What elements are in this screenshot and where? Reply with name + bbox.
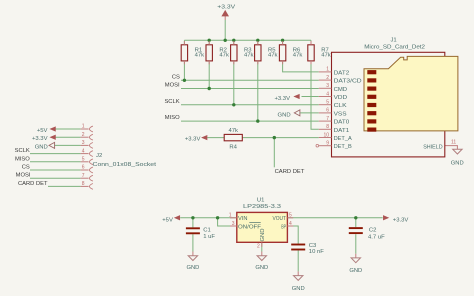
svg-text:47k: 47k — [195, 53, 205, 59]
svg-text:2: 2 — [257, 244, 260, 250]
svg-text:GND: GND — [35, 144, 48, 150]
svg-text:GND: GND — [451, 160, 464, 166]
svg-text:CARD DET: CARD DET — [275, 169, 305, 175]
svg-text:GND: GND — [255, 265, 268, 271]
svg-text:CLK: CLK — [334, 103, 347, 109]
svg-text:3: 3 — [82, 140, 85, 146]
svg-text:CMD: CMD — [334, 87, 348, 93]
svg-text:7: 7 — [82, 173, 85, 179]
svg-text:4: 4 — [82, 148, 85, 154]
svg-text:C3: C3 — [309, 243, 317, 249]
svg-text:+3.3V: +3.3V — [185, 136, 201, 142]
svg-text:CS: CS — [172, 74, 180, 80]
svg-text:47k: 47k — [228, 128, 238, 134]
svg-text:MOSI: MOSI — [165, 83, 180, 89]
svg-text:GND: GND — [349, 268, 362, 274]
svg-text:10 nF: 10 nF — [309, 249, 324, 255]
svg-text:2: 2 — [82, 132, 85, 138]
svg-text:DAT0: DAT0 — [334, 120, 350, 126]
svg-text:BP: BP — [281, 224, 286, 230]
svg-text:GND: GND — [260, 228, 266, 241]
svg-text:10: 10 — [323, 132, 329, 138]
svg-text:47k: 47k — [244, 53, 254, 59]
svg-text:J2: J2 — [96, 153, 102, 159]
svg-text:MISO: MISO — [15, 156, 30, 162]
svg-text:1: 1 — [326, 67, 329, 73]
svg-text:3: 3 — [326, 83, 329, 89]
svg-text:2: 2 — [326, 75, 329, 81]
svg-text:+3.3V: +3.3V — [32, 136, 48, 142]
svg-text:VIN: VIN — [238, 216, 248, 222]
svg-text:GND: GND — [186, 265, 199, 271]
svg-text:Conn_01x08_Socket: Conn_01x08_Socket — [93, 162, 157, 168]
svg-text:9: 9 — [326, 141, 329, 147]
svg-text:4: 4 — [289, 221, 292, 227]
svg-text:GND: GND — [292, 286, 305, 292]
svg-text:4.7 uF: 4.7 uF — [368, 234, 385, 240]
svg-text:VDD: VDD — [334, 95, 348, 101]
svg-text:8: 8 — [326, 124, 329, 130]
svg-text:C2: C2 — [369, 227, 377, 233]
svg-text:Micro_SD_Card_Det2: Micro_SD_Card_Det2 — [364, 45, 425, 51]
svg-text:4: 4 — [326, 91, 329, 97]
svg-text:CS: CS — [22, 165, 30, 171]
svg-text:LP2985-3.3: LP2985-3.3 — [243, 204, 282, 210]
svg-text:47k: 47k — [268, 53, 278, 59]
svg-text:6: 6 — [82, 165, 85, 171]
svg-text:5: 5 — [82, 157, 85, 163]
svg-text:DAT1: DAT1 — [334, 128, 350, 134]
svg-text:+3.3V: +3.3V — [217, 5, 235, 11]
svg-text:MOSI: MOSI — [16, 173, 31, 179]
svg-text:47k: 47k — [321, 53, 331, 59]
svg-text:R4: R4 — [229, 145, 237, 151]
svg-text:8: 8 — [82, 181, 85, 187]
svg-text:1: 1 — [229, 213, 232, 219]
svg-text:3: 3 — [232, 221, 235, 227]
svg-text:VOUT: VOUT — [273, 216, 287, 222]
svg-text:GND: GND — [278, 112, 291, 118]
svg-text:SHIELD: SHIELD — [423, 144, 442, 150]
svg-text:DET_A: DET_A — [334, 136, 352, 142]
svg-text:CARD DET: CARD DET — [18, 181, 48, 187]
svg-text:+3.3V: +3.3V — [393, 217, 409, 223]
svg-text:1 uF: 1 uF — [203, 234, 215, 240]
svg-text:5: 5 — [326, 100, 329, 106]
svg-text:VSS: VSS — [334, 111, 347, 117]
svg-text:DET_B: DET_B — [334, 144, 352, 150]
svg-text:MISO: MISO — [165, 115, 180, 121]
svg-text:ON/OFF: ON/OFF — [238, 224, 261, 230]
svg-text:6: 6 — [326, 108, 329, 114]
svg-text:U1: U1 — [257, 198, 265, 204]
svg-text:SCLK: SCLK — [164, 99, 179, 105]
svg-text:J1: J1 — [390, 37, 396, 43]
svg-text:+3.3V: +3.3V — [274, 96, 290, 102]
svg-text:SCLK: SCLK — [15, 148, 30, 154]
svg-text:11: 11 — [451, 140, 456, 146]
svg-text:47k: 47k — [219, 53, 229, 59]
svg-text:+5V: +5V — [162, 217, 173, 223]
svg-text:C1: C1 — [203, 228, 211, 234]
svg-text:+5V: +5V — [37, 128, 48, 134]
svg-text:7: 7 — [326, 116, 329, 122]
svg-text:1: 1 — [82, 124, 85, 130]
svg-text:47k: 47k — [293, 53, 303, 59]
svg-text:DAT2: DAT2 — [334, 70, 350, 76]
svg-text:5: 5 — [289, 213, 292, 219]
svg-text:DAT3/CD: DAT3/CD — [334, 79, 362, 85]
